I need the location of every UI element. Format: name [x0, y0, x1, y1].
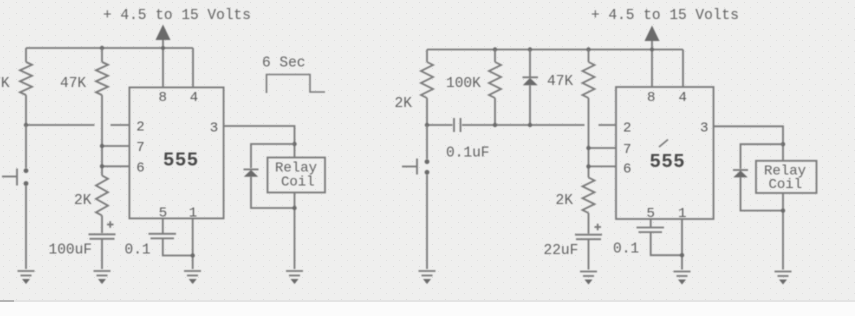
svg-text:7: 7	[136, 140, 144, 156]
node: pin 7 junction (right)	[586, 146, 590, 150]
svg-text:Coil: Coil	[281, 175, 315, 191]
svg-text:100K: 100K	[446, 76, 481, 92]
node: relay top junction	[292, 142, 296, 146]
ground (pushbutton)	[18, 271, 35, 284]
node: pin 6 junction (right)	[586, 164, 590, 168]
ground (relay right)	[775, 272, 792, 285]
svg-text:0.1: 0.1	[125, 243, 151, 259]
capacitor 0.1	[125, 218, 193, 258]
resistor 2K (input)	[395, 50, 434, 126]
wire: relay to ground	[294, 193, 296, 270]
node: relay bottom junction	[292, 206, 296, 210]
resistor 47K (right)	[583, 50, 595, 178]
wire: rail to pin 8 (right)	[651, 50, 653, 88]
node: trigger junction at resistor bottom	[24, 123, 28, 127]
svg-text:+ 4.5 to 15 Volts: + 4.5 to 15 Volts	[591, 8, 739, 24]
capacitor 22uF (polarized)	[544, 224, 603, 270]
resistor 47K (left edge, label clipped)	[0, 48, 32, 125]
op IC 555 (right)	[616, 87, 714, 219]
svg-text:0.1: 0.1	[613, 242, 639, 258]
diode (flyback, right relay)	[733, 144, 783, 210]
wire: +V rail	[26, 47, 193, 49]
node: 0.1 / pin-1 junction (right)	[680, 253, 684, 257]
node: relay top junction (right)	[781, 142, 785, 146]
svg-text:4: 4	[190, 90, 198, 106]
capacitor 0.1 (right)	[613, 219, 682, 258]
node: 100K / trigger junction	[493, 123, 497, 127]
diode (clamp)	[523, 50, 574, 126]
ground (22uF)	[580, 272, 597, 285]
svg-text:2: 2	[136, 120, 144, 136]
svg-text:6 Sec: 6 Sec	[262, 56, 306, 72]
wire: rail to pin 4	[192, 48, 194, 87]
pushbutton switch (right)	[402, 125, 429, 269]
node: pin 7 junction	[100, 144, 104, 148]
svg-text:7: 7	[623, 142, 631, 158]
supply arrow (right)	[645, 26, 660, 50]
node: relay bottom junction (right)	[781, 208, 785, 212]
svg-text:6: 6	[623, 162, 631, 178]
wire: relay to ground (right)	[782, 193, 784, 270]
svg-text:2K: 2K	[395, 96, 413, 112]
svg-text:8: 8	[159, 90, 167, 106]
capacitor 100uF (polarized)	[49, 221, 116, 269]
wire: pin 3 to relay (right)	[714, 126, 784, 161]
node: rail / pin-8 junction	[161, 46, 165, 50]
node: trigger junction at 2K bottom	[425, 123, 429, 127]
svg-text:47K: 47K	[60, 76, 86, 92]
supply arrow	[156, 25, 171, 49]
node: rail / 47K junction	[586, 47, 590, 51]
ground (100uF)	[94, 271, 111, 284]
wire: stub to pin 6	[102, 165, 129, 167]
resistor 2K	[74, 176, 108, 234]
svg-text:555: 555	[163, 150, 199, 172]
svg-text:555: 555	[650, 151, 686, 173]
resistor 100K	[446, 50, 501, 126]
pushbutton switch	[2, 125, 28, 269]
svg-text:2: 2	[623, 121, 631, 137]
node: rail / 100K junction	[493, 47, 497, 51]
svg-text:+ 4.5 to 15 Volts: + 4.5 to 15 Volts	[103, 8, 251, 24]
svg-text:6: 6	[136, 161, 144, 177]
node: 0.1 / pin-1 junction	[191, 253, 195, 257]
capacitor 0.1uF (coupling)	[446, 118, 490, 162]
relay coil box (right)	[756, 161, 817, 193]
svg-text:100uF: 100uF	[49, 243, 93, 259]
ground (pin 1 right)	[674, 272, 691, 285]
wire: pin 3 to relay	[224, 126, 295, 158]
wire: trigger line (gap at crossing)	[427, 124, 616, 126]
6 Sec pulse waveform	[262, 56, 325, 94]
wire: +V rail (right)	[427, 49, 683, 51]
wire: rail to pin 4 (right)	[682, 50, 684, 88]
svg-text:2K: 2K	[556, 193, 574, 209]
wire: stub to pin 7 (right)	[589, 147, 617, 149]
node: rail / diode junction	[528, 47, 532, 51]
wire: rail to pin 8	[162, 48, 164, 87]
wire: pin 1 to ground	[192, 218, 194, 269]
svg-text:3: 3	[210, 121, 218, 137]
svg-text:0.1uF: 0.1uF	[446, 146, 490, 162]
ground (pin 1)	[184, 271, 201, 284]
ground (relay left)	[286, 271, 303, 284]
svg-text:47K: 47K	[547, 74, 573, 90]
svg-text:47K: 47K	[0, 76, 10, 92]
wire: stub to pin 7	[102, 145, 129, 147]
wire: pin 1 to ground (right)	[681, 219, 683, 270]
svg-text:22uF: 22uF	[544, 243, 579, 259]
ground (pushbutton right)	[419, 271, 436, 284]
svg-text:Coil: Coil	[769, 177, 803, 193]
node: pin 6 junction	[100, 164, 104, 168]
op IC 555 (left)	[129, 87, 223, 218]
node: diode / trigger junction	[528, 123, 532, 127]
svg-text:2K: 2K	[74, 193, 92, 209]
svg-text:4: 4	[679, 90, 687, 106]
wire: stub to pin 6 (right)	[589, 165, 617, 167]
wire: trigger line to pin 2 (gap at crossing)	[26, 124, 129, 126]
relay coil box (left)	[268, 158, 326, 193]
node: rail / pin-8 junction	[650, 48, 654, 52]
resistor 2K (timing)	[556, 178, 595, 234]
diode (flyback, left relay)	[244, 144, 295, 208]
node: rail / 47K junction	[100, 46, 104, 50]
svg-text:3: 3	[700, 121, 708, 137]
svg-text:8: 8	[647, 90, 655, 106]
resistor 47K	[60, 48, 108, 176]
